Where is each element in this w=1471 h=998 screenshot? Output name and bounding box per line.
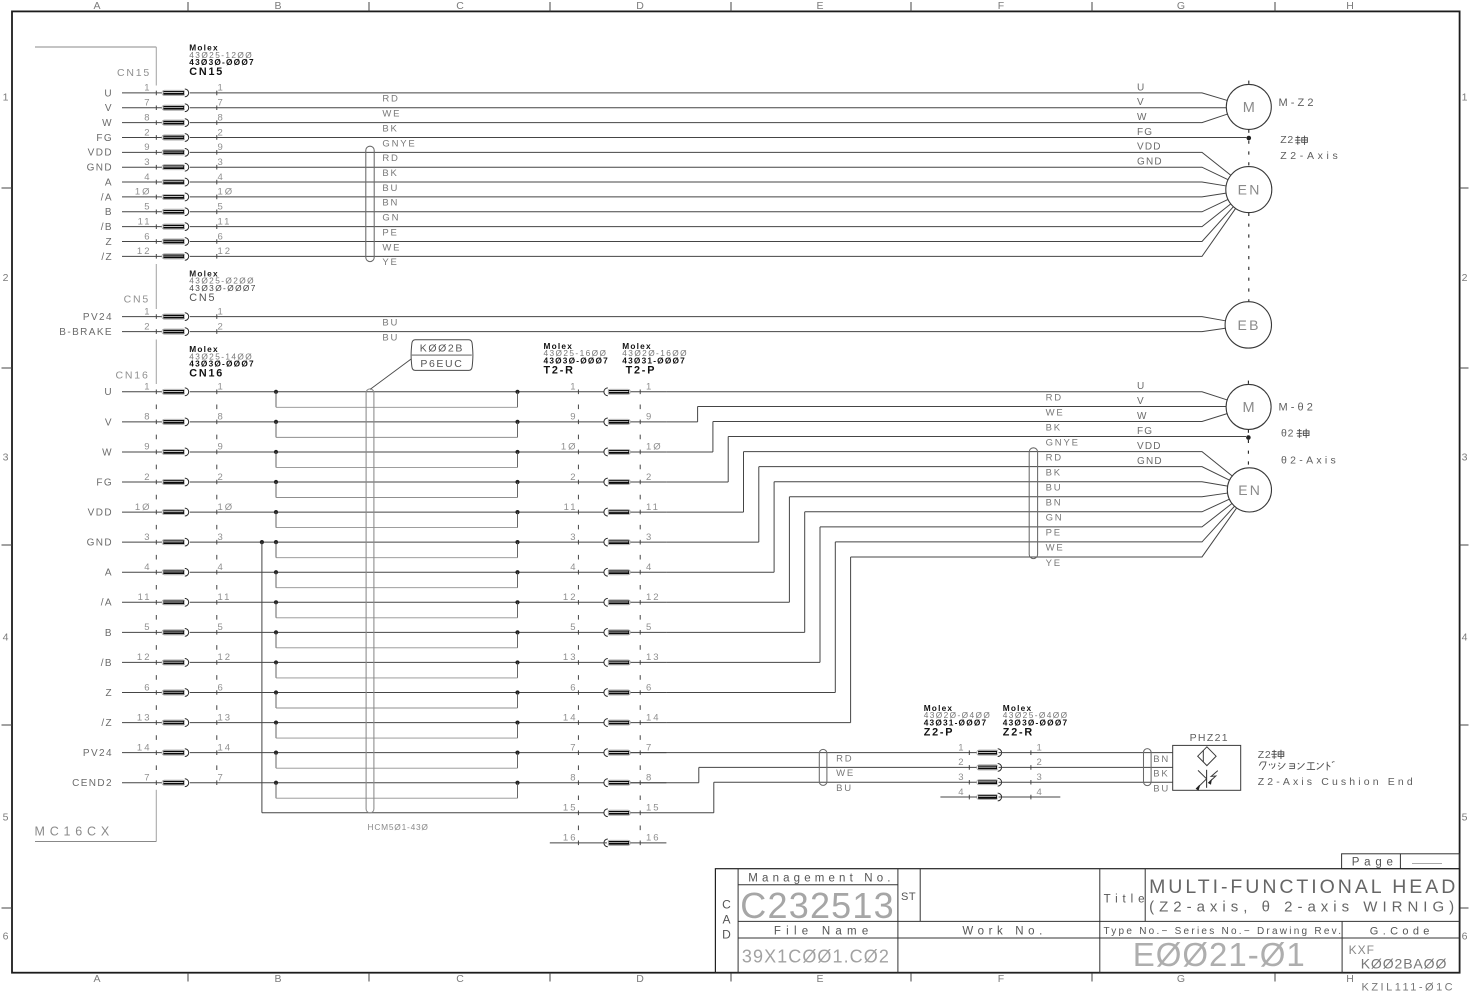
svg-text:16: 16: [646, 833, 661, 844]
T2 pin 15 stub wire: [631, 812, 714, 814]
svg-text:8: 8: [218, 112, 225, 123]
svg-text:14: 14: [563, 712, 578, 723]
T2 pin 8 contact: [570, 773, 653, 787]
svg-text:3: 3: [218, 157, 225, 168]
svg-text:FG: FG: [1137, 127, 1153, 138]
svg-text:CN5: CN5: [189, 292, 216, 304]
svg-text:13: 13: [563, 652, 578, 663]
svg-text:5: 5: [570, 622, 577, 633]
svg-text:MULTI-FUNCTIONAL HEAD: MULTI-FUNCTIONAL HEAD: [1149, 876, 1458, 898]
svg-text:BU: BU: [382, 183, 399, 194]
wire Z2-1 to PHZ21 (BN): [999, 753, 1173, 765]
svg-text:BN: BN: [1046, 498, 1063, 509]
wire T2-13 /B to theta2 encoder (PE): [666, 503, 1232, 662]
svg-text:13: 13: [137, 712, 152, 723]
svg-text:WE: WE: [382, 242, 401, 253]
svg-text:Z2-Axis Cushion End: Z2-Axis Cushion End: [1258, 776, 1416, 788]
svg-text:1Ø: 1Ø: [646, 442, 663, 453]
svg-text:15: 15: [563, 803, 578, 814]
wire CEND2 WE (T2-8 to Z2-2): [631, 767, 977, 782]
connector CN5 (Molex 43025-0200): [124, 268, 257, 334]
svg-text:9: 9: [218, 442, 225, 453]
svg-text:8: 8: [218, 412, 225, 423]
svg-text:D: D: [722, 928, 731, 942]
svg-text:9: 9: [144, 442, 151, 453]
svg-text:C: C: [722, 898, 731, 912]
svg-text:4: 4: [646, 562, 653, 573]
svg-text:C232513: C232513: [740, 885, 895, 926]
svg-text:F: F: [998, 0, 1004, 12]
svg-text:5: 5: [218, 622, 225, 633]
svg-text:6: 6: [144, 231, 151, 242]
svg-text:2: 2: [144, 127, 151, 138]
svg-text:9: 9: [144, 142, 151, 153]
svg-text:2: 2: [218, 127, 225, 138]
label U V W FG VDD GND (Z2 motor leads): [1137, 82, 1163, 167]
svg-text:BU: BU: [382, 332, 399, 343]
svg-text:12: 12: [137, 246, 152, 257]
svg-text:V: V: [105, 417, 113, 428]
svg-text:W: W: [102, 118, 113, 129]
CN15 pin 5 (B) terminal: [105, 202, 225, 219]
svg-text:PE: PE: [1046, 528, 1062, 539]
svg-text:W: W: [102, 447, 113, 458]
CN15 pin 6 (Z) terminal: [105, 231, 224, 248]
svg-text:12: 12: [563, 592, 578, 603]
svg-text:VDD: VDD: [1137, 142, 1162, 153]
svg-text:/A: /A: [101, 598, 113, 609]
svg-text:1: 1: [646, 382, 653, 393]
svg-text:4: 4: [3, 632, 9, 644]
svg-text:1Ø: 1Ø: [561, 442, 578, 453]
CN15 pin 10 (/A) terminal: [101, 187, 234, 204]
svg-text:5: 5: [646, 622, 653, 633]
CN16 pin 11 (/A) terminal: [101, 592, 232, 609]
CN16 pin 7 (CEND2) terminal: [72, 773, 225, 790]
svg-text:D: D: [636, 0, 644, 12]
T2 pin 4 contact: [570, 562, 653, 576]
encoder EN (theta2): [1227, 468, 1271, 512]
wire CN16-2 FG to T2-2 (doubled pair): [190, 480, 667, 498]
svg-text:C: C: [456, 973, 464, 985]
wire CN16-9 W to T2-10 (doubled pair): [190, 450, 667, 468]
svg-text:3: 3: [3, 452, 9, 464]
svg-text:Z2-R: Z2-R: [1003, 726, 1034, 738]
wire PV24 RD (T2-7 to Z2-1): [631, 753, 977, 765]
svg-text:4: 4: [144, 172, 151, 183]
svg-text:Title: Title: [1104, 893, 1150, 905]
svg-text:U: U: [1137, 82, 1145, 93]
CN15 pin 11 (/B) terminal: [101, 216, 232, 233]
wire CN16-3 GND to T2-3 (doubled pair): [190, 540, 667, 558]
svg-text:RD: RD: [382, 94, 399, 105]
svg-text:Z2: Z2: [1280, 134, 1294, 146]
CN15 pin 2 (FG) terminal: [96, 127, 224, 144]
GND trunk wire (CN16-3 to T2-15): [260, 540, 607, 813]
svg-text:RD: RD: [836, 753, 853, 764]
svg-text:P6EUC: P6EUC: [420, 358, 463, 370]
svg-text:T2-P: T2-P: [626, 365, 657, 377]
wire CN15-3 GND (BK): [190, 167, 1228, 179]
svg-text:5: 5: [144, 622, 151, 633]
T2 pin 16 contact: [563, 833, 661, 847]
CN15 pin 3 (GND) terminal: [87, 157, 225, 174]
T2 pin 9 contact: [570, 412, 653, 426]
svg-text:M: M: [1243, 100, 1255, 116]
Z2 pin 3 contact: [958, 772, 1044, 786]
wire CN15-4 A (BU): [190, 182, 1226, 194]
wire CN15-9 VDD (RD): [190, 152, 1231, 175]
svg-text:8: 8: [570, 773, 577, 784]
svg-text:GND: GND: [1137, 456, 1163, 467]
svg-text:13: 13: [218, 712, 233, 723]
svg-text:D: D: [636, 973, 644, 985]
callout K002B / P6EUC: [370, 340, 473, 390]
wire T2-3 GND to theta2 encoder (BK): [666, 467, 1229, 543]
svg-text:4: 4: [1462, 632, 1468, 644]
wire CN16-8 V to T2-9 (doubled pair): [190, 420, 667, 438]
svg-text:V: V: [105, 103, 113, 114]
svg-text:KZIL111-Ø1C: KZIL111-Ø1C: [1362, 982, 1456, 993]
svg-text:CN15: CN15: [189, 66, 224, 78]
svg-text:12: 12: [218, 652, 233, 663]
svg-text:H: H: [1346, 0, 1354, 12]
wire CN15-1 U (RD): [190, 93, 1227, 105]
svg-text:EN: EN: [1238, 182, 1262, 198]
CN16 pin 5 (B) terminal: [105, 622, 225, 639]
CN16 pin 3 (GND) terminal: [87, 532, 225, 549]
svg-text:A: A: [105, 568, 113, 579]
svg-text:14: 14: [218, 742, 233, 753]
motor M1 M-Z2: [1226, 84, 1316, 129]
wire Z2-2 to PHZ21 (BK): [999, 767, 1173, 779]
svg-text:5: 5: [1462, 812, 1468, 824]
svg-text:11: 11: [218, 216, 232, 227]
CN16 pin 9 (W) terminal: [102, 442, 225, 459]
T2 pin 2 contact: [570, 472, 653, 486]
CN15 pin 12 (/Z) terminal: [101, 246, 232, 263]
svg-text:3: 3: [958, 772, 965, 783]
wire CN16-7 CEND2 to T2-8 (doubled pair): [190, 781, 667, 799]
svg-text:CEND2: CEND2: [72, 778, 113, 789]
connector CN16 (Molex 43025-1400): [116, 344, 255, 785]
wire CN15-11 /B (PE): [190, 204, 1231, 239]
CN16 pin 6 (Z) terminal: [105, 682, 224, 699]
svg-text:A: A: [93, 973, 100, 985]
T2 pin 12 contact: [563, 592, 661, 606]
svg-text:4: 4: [958, 787, 965, 798]
CN15 pin 7 (V) terminal: [105, 98, 225, 115]
svg-text:BU: BU: [1046, 483, 1063, 494]
svg-text:RD: RD: [382, 153, 399, 164]
svg-text:W: W: [1137, 411, 1148, 422]
wire CN5-2 B-BRAKE (BU): [190, 328, 1226, 343]
T2 pin 14 contact: [563, 712, 661, 726]
wire CN15-12 /Z (YE): [190, 208, 1236, 268]
svg-text:2: 2: [646, 472, 653, 483]
svg-text:CN5: CN5: [124, 294, 150, 306]
svg-text:7: 7: [144, 773, 151, 784]
svg-text:MC16CX: MC16CX: [35, 825, 115, 839]
CN16 pin 2 (FG) terminal: [96, 472, 224, 489]
svg-text:1Ø: 1Ø: [135, 502, 152, 513]
svg-text:/B: /B: [101, 658, 113, 669]
svg-text:GND: GND: [87, 538, 113, 549]
svg-text:7: 7: [646, 742, 653, 753]
svg-text:5: 5: [218, 202, 225, 213]
svg-text:U: U: [104, 88, 113, 99]
svg-text:BK: BK: [382, 168, 398, 179]
svg-text:1: 1: [218, 83, 225, 94]
svg-text:PE: PE: [382, 227, 398, 238]
svg-text:4: 4: [1037, 787, 1044, 798]
svg-text:CN15: CN15: [117, 67, 151, 79]
svg-text:3: 3: [646, 532, 653, 543]
connector pair T2-R (Molex 43025-1600) / T2-P (43020-1600): [544, 341, 688, 845]
svg-text:1: 1: [144, 83, 151, 94]
svg-text:HCM5Ø1-43Ø: HCM5Ø1-43Ø: [368, 822, 429, 832]
wire CN16-13 /Z to T2-14 (doubled pair): [190, 720, 667, 738]
wire CN15-6 Z (WE): [190, 207, 1234, 254]
svg-text:4: 4: [218, 172, 225, 183]
encoder EN (Z2): [1226, 167, 1272, 213]
CN16 pin 1 (U) terminal: [104, 382, 224, 399]
svg-text:1: 1: [144, 382, 151, 393]
svg-text:Work No.: Work No.: [962, 926, 1047, 938]
svg-text:2: 2: [218, 472, 225, 483]
wire CN15-8 W (BK): [190, 114, 1228, 134]
svg-text:YE: YE: [1046, 558, 1062, 569]
svg-text:M-θ2: M-θ2: [1279, 402, 1316, 414]
CN16 pin 14 (PV24) terminal: [83, 742, 232, 759]
wire T2-5 B to theta2 encoder (GN): [666, 499, 1229, 632]
svg-text:2: 2: [3, 272, 9, 284]
svg-text:11: 11: [564, 502, 578, 513]
svg-text:V: V: [1137, 97, 1145, 108]
svg-text:V: V: [1137, 396, 1145, 407]
T2 pin 10 contact: [561, 442, 663, 456]
svg-text:BK: BK: [1046, 467, 1062, 478]
wire T2-10 W to theta2 motor (BK): [666, 414, 1227, 452]
svg-text:θ2-Axis: θ2-Axis: [1281, 455, 1339, 467]
svg-text:1Ø: 1Ø: [218, 187, 235, 198]
svg-text:12: 12: [218, 246, 233, 257]
wire CN16-5 B to T2-5 (doubled pair): [190, 630, 667, 648]
T2 pin 7 contact: [570, 742, 653, 756]
T2 pin 15 contact: [563, 803, 661, 817]
svg-text:6: 6: [3, 931, 9, 943]
svg-text:4: 4: [218, 562, 225, 573]
svg-text:BK: BK: [1153, 769, 1169, 780]
title block: [715, 854, 1459, 994]
svg-text:8: 8: [646, 773, 653, 784]
svg-text:GN: GN: [1046, 513, 1064, 524]
svg-text:7: 7: [218, 773, 225, 784]
Z2 pin 4 contact: [958, 787, 1044, 801]
svg-text:KØØ2B: KØØ2B: [420, 343, 464, 355]
svg-text:3: 3: [570, 532, 577, 543]
brake EB (Z2): [1225, 302, 1271, 348]
svg-text:3: 3: [1462, 452, 1468, 464]
CN16 pin 4 (A) terminal: [105, 562, 225, 579]
svg-text:CN16: CN16: [189, 368, 224, 380]
svg-text:FG: FG: [96, 133, 113, 144]
svg-text:11: 11: [138, 216, 152, 227]
wire T2-12 /A to theta2 encoder (BN): [666, 493, 1227, 602]
svg-text:WE: WE: [382, 109, 401, 120]
svg-text:4: 4: [570, 562, 577, 573]
dashed machine boundary Z2 unit: [1248, 81, 1250, 302]
CN5 pin 1 (PV24) terminal: [83, 306, 225, 323]
svg-text:9: 9: [218, 142, 225, 153]
svg-text:2: 2: [958, 757, 965, 768]
svg-text:1: 1: [218, 382, 225, 393]
svg-text:1: 1: [218, 306, 225, 317]
connector CN15 (Molex 43025-1200): [117, 43, 255, 259]
wire CN16-10 VDD to T2-11 (doubled pair): [190, 510, 667, 528]
svg-text:EB: EB: [1238, 317, 1261, 333]
svg-text:G.Code: G.Code: [1370, 926, 1434, 938]
svg-text:3: 3: [144, 157, 151, 168]
svg-text:WE: WE: [836, 768, 855, 779]
svg-text:6: 6: [144, 682, 151, 693]
wire CN16-14 PV24 to T2-7 (doubled pair): [190, 751, 667, 769]
svg-text:B-BRAKE: B-BRAKE: [59, 327, 113, 338]
sensor PHZ21 (Z2-axis cushion end photo sensor): [1173, 732, 1241, 791]
wire CN15-7 V (WE): [190, 108, 1227, 120]
svg-text:(Z2-axis, θ 2-axis WIRNIG): (Z2-axis, θ 2-axis WIRNIG): [1149, 898, 1459, 915]
svg-text:12: 12: [137, 652, 152, 663]
connector pair Z2-P (Molex 43020-0400) / Z2-R (43025-0400): [924, 703, 1069, 800]
svg-text:B: B: [274, 0, 281, 12]
svg-text:CN16: CN16: [116, 370, 150, 382]
svg-text:PV24: PV24: [83, 748, 113, 759]
label Z2-Axis Cushion End: [1258, 749, 1416, 788]
svg-text:BU: BU: [836, 783, 853, 794]
svg-text:Z: Z: [105, 237, 113, 248]
T2 pin 6 contact: [570, 682, 653, 696]
svg-text:U: U: [1137, 381, 1145, 392]
svg-text:16: 16: [563, 833, 578, 844]
svg-text:8: 8: [144, 112, 151, 123]
svg-text:6: 6: [218, 682, 225, 693]
svg-text:5: 5: [3, 812, 9, 824]
svg-text:GN: GN: [382, 213, 400, 224]
svg-text:1: 1: [1462, 92, 1468, 104]
wire T2-11 VDD to theta2 encoder (RD): [666, 452, 1232, 512]
svg-text:U: U: [104, 387, 113, 398]
svg-text:C: C: [456, 0, 464, 12]
svg-text:θ2: θ2: [1281, 428, 1294, 440]
cable shield (theta2 encoder wires): [1029, 448, 1037, 559]
label Z2-Axis: [1280, 134, 1341, 162]
svg-text:2: 2: [218, 321, 225, 332]
svg-text:BN: BN: [382, 198, 399, 209]
svg-text:2: 2: [144, 321, 151, 332]
svg-text:E: E: [816, 0, 823, 12]
svg-text:5: 5: [144, 202, 151, 213]
wire CN16-12 /B to T2-13 (doubled pair): [190, 660, 667, 678]
wire CN5-1 PV24 (BU): [190, 317, 1226, 329]
svg-text:7: 7: [570, 742, 577, 753]
svg-text:A: A: [105, 177, 113, 188]
T2 pin 1 contact: [570, 382, 653, 396]
svg-text:EN: EN: [1238, 482, 1262, 498]
svg-text:PHZ21: PHZ21: [1190, 732, 1229, 744]
CN16 pin 10 (VDD) terminal: [88, 502, 235, 519]
wire CN15-5 B (GN): [190, 199, 1228, 223]
svg-text:W: W: [1137, 112, 1148, 123]
wire Z2-3 to PHZ21 (BU): [999, 782, 1173, 794]
svg-text:VDD: VDD: [1137, 441, 1162, 452]
T2 pin 16 stub wire: [550, 842, 607, 844]
svg-text:WE: WE: [1046, 407, 1065, 418]
svg-text:14: 14: [646, 712, 661, 723]
svg-text:BK: BK: [1046, 422, 1062, 433]
svg-text:RD: RD: [1046, 393, 1063, 404]
svg-text:YE: YE: [382, 257, 398, 268]
svg-text:14: 14: [137, 742, 152, 753]
svg-text:9: 9: [646, 412, 653, 423]
svg-text:3: 3: [144, 532, 151, 543]
CN16 pin 13 (/Z) terminal: [101, 712, 232, 729]
svg-text:B: B: [105, 628, 113, 639]
svg-text:1Ø: 1Ø: [218, 502, 235, 513]
svg-text:Management No.: Management No.: [748, 872, 894, 884]
svg-text:6: 6: [570, 682, 577, 693]
svg-text:Z2: Z2: [1258, 749, 1272, 761]
Z2 pin 2 contact: [958, 757, 1044, 771]
svg-text:2: 2: [144, 472, 151, 483]
cable shield (Z2 sensor cable left): [819, 749, 827, 785]
svg-text:2: 2: [1037, 757, 1044, 768]
svg-text:4: 4: [144, 562, 151, 573]
CN16 pin 8 (V) terminal: [105, 412, 225, 429]
wire CN16-4 A to T2-4 (doubled pair): [190, 570, 667, 588]
wire T2-9 V to theta2 motor (WE): [666, 406, 1226, 421]
svg-text:M-Z2: M-Z2: [1279, 97, 1317, 109]
svg-text:/Z: /Z: [101, 252, 113, 263]
svg-text:6: 6: [1462, 931, 1468, 943]
svg-text:2: 2: [1462, 272, 1468, 284]
cable shield (CN15 encoder wires): [366, 146, 374, 261]
svg-text:11: 11: [138, 592, 152, 603]
svg-text:1: 1: [1037, 742, 1044, 753]
svg-text:6: 6: [218, 231, 225, 242]
wire CN16-1 U to T2-1 (doubled pair): [190, 390, 667, 408]
svg-text:39X1CØØ1.CØ2: 39X1CØØ1.CØ2: [742, 946, 890, 966]
CN15 pin 8 (W) terminal: [102, 112, 225, 129]
svg-text:M: M: [1243, 400, 1255, 416]
svg-text:6: 6: [646, 682, 653, 693]
svg-text:1Ø: 1Ø: [135, 187, 152, 198]
svg-text:BU: BU: [1153, 783, 1170, 794]
svg-text:G: G: [1177, 973, 1185, 985]
wire T2-4 A to theta2 encoder (BU): [666, 482, 1227, 573]
svg-text:1: 1: [958, 742, 965, 753]
svg-text:11: 11: [218, 592, 232, 603]
CN15 pin 9 (VDD) terminal: [88, 142, 225, 159]
svg-text:Z2-Axis: Z2-Axis: [1280, 150, 1341, 162]
svg-text:EØØ21-Ø1: EØØ21-Ø1: [1133, 936, 1306, 973]
svg-text:A: A: [722, 913, 730, 927]
T2 pin 11 contact: [564, 502, 660, 516]
svg-text:12: 12: [646, 592, 661, 603]
T2 pin 3 contact: [570, 532, 653, 546]
cable shield (Z2 sensor cable right): [1144, 749, 1152, 786]
svg-text:H: H: [1346, 973, 1354, 985]
Z2 pin 4 stub wire: [940, 796, 976, 798]
